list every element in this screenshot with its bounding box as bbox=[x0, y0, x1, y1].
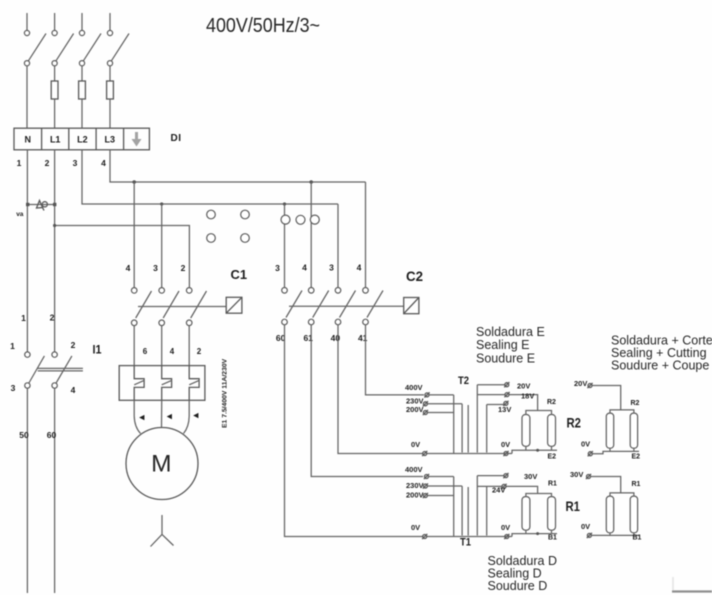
wire N switch to terminal block bbox=[26, 66, 28, 128]
T1 secondary 24V tap wire to R1 bbox=[477, 486, 537, 493]
cutting R2 bottom connection bbox=[610, 448, 639, 451]
svg-text:2: 2 bbox=[71, 340, 76, 350]
svg-text:3: 3 bbox=[73, 158, 78, 168]
fuse F2 (L2) bbox=[79, 81, 86, 99]
T1 30V terminal bbox=[503, 473, 508, 478]
svg-text:2: 2 bbox=[197, 347, 202, 356]
wire 30V to cutting R1 bbox=[591, 477, 621, 493]
T1 400V tap wire to winding bbox=[429, 476, 454, 478]
resistor R2a bbox=[522, 415, 530, 447]
T1 200V tap wire bbox=[428, 495, 454, 497]
T2 200V terminal bbox=[423, 410, 428, 415]
svg-text:2: 2 bbox=[45, 158, 50, 168]
svg-text:I1: I1 bbox=[93, 345, 103, 357]
svg-text:E1 7.5/400V 11A/230V: E1 7.5/400V 11A/230V bbox=[222, 358, 229, 428]
trip symbol on link bbox=[37, 201, 48, 211]
wire relay to motor mid bbox=[161, 400, 163, 427]
svg-text:2: 2 bbox=[50, 313, 55, 323]
heater element pole 2 bbox=[162, 366, 172, 401]
svg-text:30V: 30V bbox=[570, 470, 583, 479]
wire fuse F1 to terminal block bbox=[54, 99, 56, 128]
wire 0V to cutting R2 bottom bbox=[592, 451, 610, 453]
svg-text:L2: L2 bbox=[77, 135, 88, 145]
R2 top connection bbox=[526, 411, 552, 415]
svg-text:0V: 0V bbox=[581, 440, 590, 449]
svg-text:400V: 400V bbox=[405, 465, 423, 474]
svg-text:1: 1 bbox=[17, 158, 22, 168]
fuse F1 (L1) bbox=[51, 81, 58, 99]
wire relay to motor left bbox=[134, 400, 140, 433]
T2 20V terminal bbox=[504, 382, 509, 387]
wire 61: C2 pole2 down to T1 400V bbox=[311, 325, 423, 477]
wire fuse F2 to terminal block bbox=[81, 99, 83, 128]
C2 coil box bbox=[404, 298, 419, 314]
residual device link between wire 1 and wire 2 bbox=[27, 204, 54, 206]
svg-text:0V: 0V bbox=[501, 440, 510, 449]
wire 60 below I1 bbox=[54, 388, 56, 593]
wire 40: C2 pole3 down to T2 0V bbox=[338, 325, 423, 454]
svg-text:Soudure E: Soudure E bbox=[476, 352, 535, 366]
resistor R1d (cutting) bbox=[630, 496, 637, 533]
svg-text:6: 6 bbox=[143, 347, 148, 356]
svg-text:2: 2 bbox=[181, 263, 186, 273]
svg-text:L3: L3 bbox=[105, 135, 116, 145]
wire C1 pole1 to thermal relay bbox=[133, 326, 135, 366]
T1 400V terminal bbox=[424, 474, 429, 479]
cutting R2 top connection bbox=[610, 410, 634, 413]
contactor C2 pole 4 (wire 4, node 41) bbox=[363, 288, 383, 325]
wire drop to C1 pole 1 bbox=[133, 182, 135, 288]
wire relay to motor right bbox=[184, 400, 190, 433]
svg-text:230V: 230V bbox=[406, 481, 424, 490]
contactor C2 pole 3 (wire 3, node 40) bbox=[335, 288, 355, 325]
T2 secondary 18V tap wire to R2 bbox=[477, 395, 537, 411]
heater element pole 3 bbox=[189, 366, 199, 401]
note Soldadura E / Sealing E / Soudure E bbox=[476, 325, 545, 366]
svg-text:Sealing E: Sealing E bbox=[476, 338, 530, 352]
svg-text:400V: 400V bbox=[405, 383, 423, 392]
T2 400V tap wire to winding bbox=[429, 394, 454, 396]
svg-text:18V: 18V bbox=[521, 392, 534, 401]
svg-text:B1: B1 bbox=[633, 535, 642, 542]
svg-text:0V: 0V bbox=[581, 522, 590, 531]
svg-text:200V: 200V bbox=[406, 405, 424, 414]
svg-text:24V: 24V bbox=[492, 486, 505, 495]
title block corner (bottom right) bbox=[672, 577, 712, 592]
svg-text:4: 4 bbox=[302, 263, 307, 273]
T2 400V terminal bbox=[424, 392, 429, 397]
disconnect switch pole L1 bbox=[52, 13, 74, 66]
wire fuse F3 to terminal block bbox=[109, 99, 111, 128]
cutting 30V terminal bbox=[586, 474, 591, 479]
cutting 0V terminal bbox=[588, 451, 593, 456]
wire 4 (L3) down then right feeding C1 pole1 / C2 poles 2,4 bbox=[110, 150, 366, 182]
svg-text:T2: T2 bbox=[458, 375, 469, 387]
resistor R2d (cutting) bbox=[630, 413, 637, 448]
R1 bottom connection to 0V bbox=[512, 530, 557, 536]
T1 230V terminal bbox=[423, 483, 428, 488]
resistor R1b bbox=[548, 497, 556, 531]
C1 coil box bbox=[226, 297, 242, 313]
svg-text:va: va bbox=[16, 211, 24, 218]
cutting 0V terminal (lower) bbox=[587, 533, 592, 538]
contactor C2 pole 1 (wire 3, node 60) bbox=[282, 288, 302, 325]
wire drop to C2 pole 1 bbox=[284, 204, 286, 288]
R2 bottom connection to 0V bbox=[512, 446, 557, 453]
wire drop to C1 pole 2 bbox=[161, 204, 163, 288]
T2 secondary 0V terminal bbox=[503, 451, 508, 456]
wire drop to C2 pole 3 bbox=[337, 204, 339, 288]
junction wire3 / C2 pole1 feed bbox=[283, 202, 286, 205]
junction dot wire4 / C1 pole1 feed bbox=[132, 180, 136, 184]
svg-text:400V/50Hz/3~: 400V/50Hz/3~ bbox=[206, 15, 320, 37]
wire 3 (L2) down then right feeding C1 pole2 / C2 poles 1,3 bbox=[82, 150, 338, 204]
svg-text:50: 50 bbox=[19, 430, 29, 440]
svg-text:M: M bbox=[151, 451, 171, 478]
svg-text:T1: T1 bbox=[460, 537, 471, 549]
svg-text:R1: R1 bbox=[566, 498, 581, 514]
link tick left bbox=[26, 203, 29, 206]
wire L1 switch to fuse bbox=[54, 66, 56, 81]
svg-text:R2: R2 bbox=[547, 399, 556, 406]
svg-text:L1: L1 bbox=[50, 135, 61, 145]
T2 18V terminal bbox=[504, 392, 509, 397]
svg-text:R1: R1 bbox=[632, 481, 641, 488]
switch I1 pole 1 bbox=[25, 352, 45, 388]
transformer T1 windings and core bbox=[454, 476, 487, 537]
T1 secondary 30V tap wire bbox=[477, 475, 503, 477]
svg-text:C2: C2 bbox=[406, 269, 423, 284]
svg-text:4: 4 bbox=[170, 347, 175, 356]
contactor C1 pole 2 (wire 3) bbox=[159, 288, 179, 326]
svg-text:R2: R2 bbox=[567, 414, 582, 430]
svg-text:41: 41 bbox=[358, 333, 368, 343]
svg-text:0V: 0V bbox=[411, 523, 420, 532]
wire 0V to cutting R1 bottom bbox=[591, 534, 610, 536]
C1 actuation line bbox=[138, 306, 226, 308]
cutting R1 top connection bbox=[610, 493, 634, 496]
fuse F3 (L3) bbox=[107, 81, 114, 99]
I1 mechanical link (double line) bbox=[38, 368, 83, 371]
cutting 20V terminal bbox=[587, 383, 592, 388]
contactor C2 pole 2 (wire 4, node 61) bbox=[308, 288, 328, 325]
wire L2 switch to fuse bbox=[81, 66, 83, 81]
disconnect switch pole L3 bbox=[107, 13, 129, 66]
svg-text:B1: B1 bbox=[548, 535, 557, 542]
auxiliary contact circles (2x2 group) bbox=[207, 210, 250, 242]
T1 200V terminal bbox=[423, 493, 428, 498]
wire drop to C2 pole 4 bbox=[365, 182, 367, 288]
svg-text:1: 1 bbox=[21, 313, 26, 323]
transformer T2 windings and core bbox=[454, 385, 487, 454]
svg-text:20V: 20V bbox=[574, 379, 587, 388]
disconnect switch pole N (top stub, contacts, blade) bbox=[24, 13, 46, 66]
resistor R2b bbox=[548, 415, 556, 447]
note Soldadura + Corte / Sealing + Cutting / Soudure + Coupe bbox=[611, 334, 712, 373]
T2 secondary 20V tap wire bbox=[477, 384, 504, 386]
svg-text:Soudure + Coupe: Soudure + Coupe bbox=[611, 359, 709, 373]
note Soldadura D / Sealing D / Soudure D bbox=[488, 554, 558, 593]
svg-text:4: 4 bbox=[71, 385, 76, 395]
resistor R1a bbox=[522, 497, 530, 531]
svg-text:4: 4 bbox=[357, 263, 362, 273]
disconnect switch pole L2 bbox=[79, 13, 101, 66]
svg-text:0V: 0V bbox=[411, 440, 420, 449]
svg-text:13V: 13V bbox=[498, 405, 511, 414]
contactor C1 pole 3 (wire 2) bbox=[186, 288, 206, 326]
terminal block dividers bbox=[42, 128, 124, 150]
T2 230V tap wire bbox=[428, 403, 463, 405]
C2 actuation line bbox=[289, 305, 404, 307]
svg-text:Soudure D: Soudure D bbox=[488, 579, 548, 593]
svg-text:Soldadura E: Soldadura E bbox=[476, 325, 545, 339]
svg-text:3: 3 bbox=[153, 263, 158, 273]
svg-text:3: 3 bbox=[329, 263, 334, 273]
svg-text:0V: 0V bbox=[501, 523, 510, 532]
heater element pole 1 bbox=[134, 366, 144, 401]
svg-text:N: N bbox=[25, 135, 32, 145]
ground arrow symbol in terminal block bbox=[132, 132, 142, 147]
T2 13V terminal bbox=[503, 401, 508, 406]
T1 24V terminal bbox=[501, 484, 506, 489]
svg-text:3: 3 bbox=[275, 263, 280, 273]
resistor R2c (cutting) bbox=[606, 413, 613, 448]
junction dot wire4 / C2 pole2 feed bbox=[309, 180, 313, 184]
wire drop to C2 pole 2 bbox=[310, 182, 312, 288]
wire 1 (N) terminal block down to switch I1 bbox=[26, 150, 28, 352]
terminal block DI outline bbox=[14, 128, 149, 150]
wire C1 pole3 to thermal relay bbox=[188, 326, 190, 366]
wire 41: C2 pole4 down to T2 400V bbox=[366, 325, 425, 395]
T2 0V rail to resistors R2 bbox=[427, 453, 512, 455]
svg-text:1: 1 bbox=[10, 341, 15, 351]
contactor C1 pole 1 (wire 4) bbox=[131, 288, 151, 326]
star connection symbol bbox=[151, 515, 174, 547]
resistor R1c (cutting) bbox=[606, 496, 613, 533]
svg-text:4: 4 bbox=[101, 158, 106, 168]
junction wire3 / C1 pole2 feed bbox=[160, 202, 163, 205]
switch I1 pole 2 bbox=[52, 352, 72, 388]
svg-text:200V: 200V bbox=[406, 491, 424, 500]
wire 2 (L1) terminal block down to switch I1 bbox=[54, 150, 56, 352]
svg-text:E2: E2 bbox=[548, 454, 557, 461]
cutting R1 bottom connection bbox=[610, 533, 639, 536]
svg-text:C1: C1 bbox=[231, 267, 248, 282]
svg-text:E2: E2 bbox=[632, 454, 641, 461]
T2 200V tap wire bbox=[428, 412, 454, 414]
svg-text:4: 4 bbox=[126, 263, 131, 273]
T1 0V rail to resistors R1 bbox=[427, 536, 512, 538]
wire 20V to cutting R2 bbox=[592, 386, 621, 410]
T1 primary 0V terminal bbox=[422, 534, 427, 539]
wire 60: C2 pole1 down to T1 0V bbox=[285, 325, 425, 537]
auxiliary contact circles (row of 3) bbox=[281, 215, 319, 224]
wire 50 below I1 bbox=[26, 388, 28, 593]
svg-text:DI: DI bbox=[171, 133, 182, 144]
svg-text:3: 3 bbox=[11, 383, 16, 393]
wire C1 pole2 to thermal relay bbox=[161, 326, 163, 366]
link tick right bbox=[53, 203, 56, 206]
T2 primary 0V terminal bbox=[422, 451, 427, 456]
T1 230V tap wire bbox=[428, 485, 463, 487]
svg-text:R2: R2 bbox=[631, 400, 640, 407]
T2 secondary 13V tap wire bbox=[487, 404, 504, 406]
junction on wire 2 bbox=[53, 224, 56, 227]
T1 secondary 0V terminal bbox=[504, 534, 509, 539]
wire L3 switch to fuse bbox=[109, 66, 111, 81]
svg-text:40: 40 bbox=[331, 333, 341, 343]
svg-text:30V: 30V bbox=[524, 472, 537, 481]
T2 230V terminal bbox=[423, 401, 428, 406]
svg-text:20V: 20V bbox=[517, 382, 530, 391]
svg-text:R1: R1 bbox=[548, 481, 557, 488]
motor M1 circle bbox=[126, 428, 198, 500]
R1 top connection bbox=[526, 494, 552, 497]
thermal overload relay E1 box bbox=[119, 366, 205, 401]
wire 2 branch right to C1 pole 3 bbox=[55, 226, 190, 288]
svg-text:60: 60 bbox=[47, 430, 57, 440]
